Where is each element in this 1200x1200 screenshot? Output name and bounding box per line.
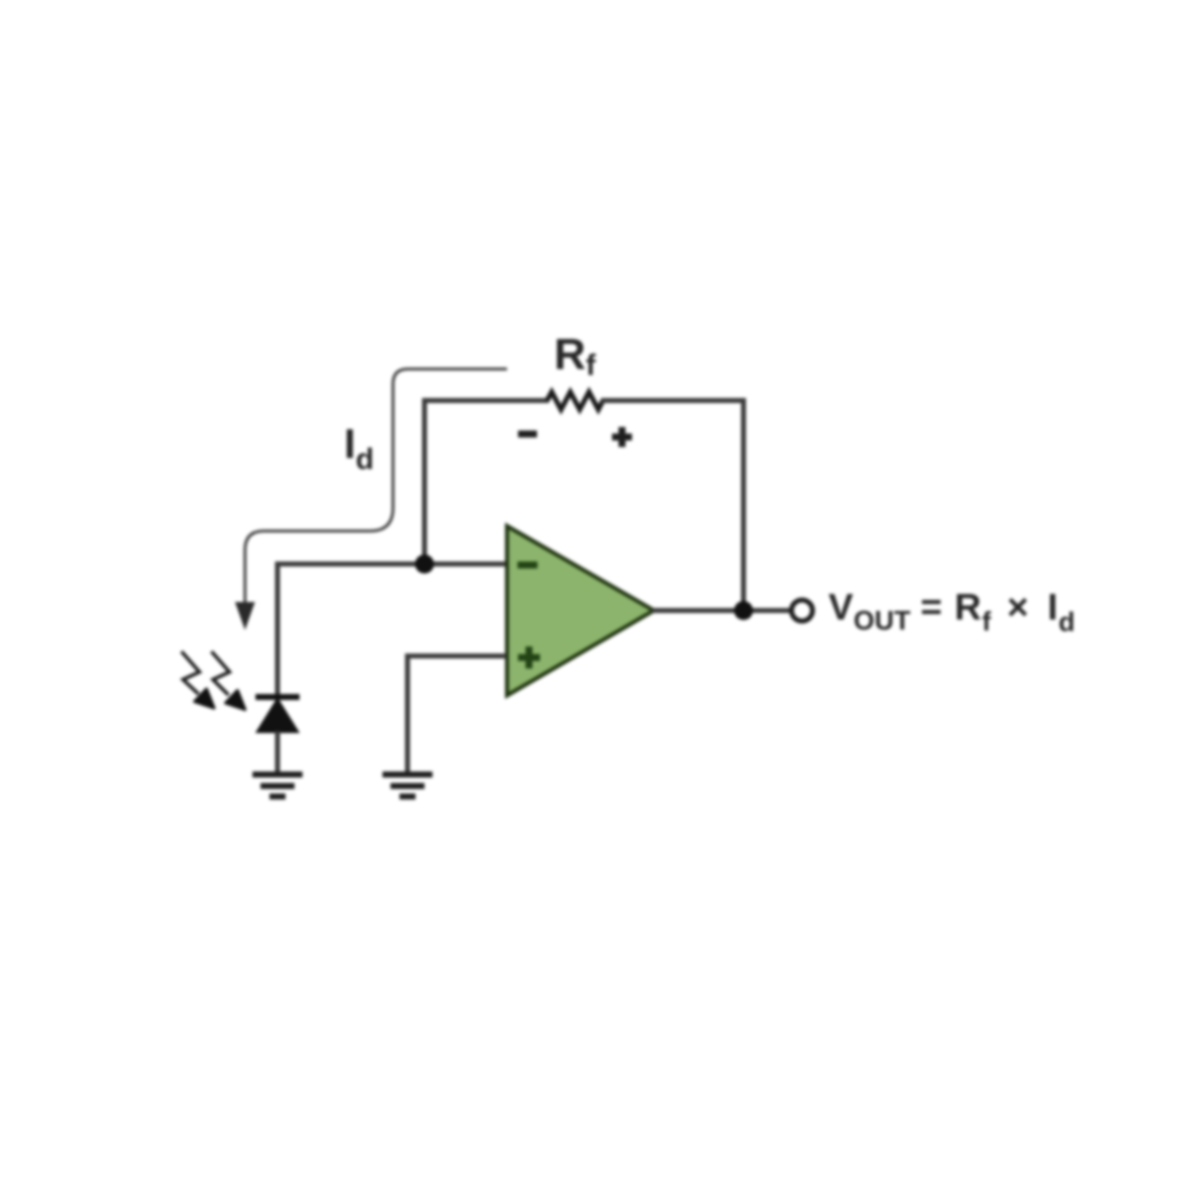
node junction dot at inverting input [415, 555, 434, 574]
label plus at resistor right [612, 427, 632, 447]
svg-text:d: d [1059, 607, 1076, 637]
wire inverting input horizontal [278, 562, 506, 567]
op-amp U1 triangle [507, 526, 654, 696]
photodiode D1 triangle [257, 699, 298, 732]
wire feedback top horizontal right of resistor [601, 398, 744, 403]
resistor Rf zigzag [547, 392, 603, 410]
current path Id thin curve [245, 369, 507, 604]
svg-text:R: R [955, 587, 982, 628]
wire photodiode vertical upper [275, 562, 280, 698]
light arrow 1 [182, 652, 200, 695]
svg-text:×: × [1007, 587, 1029, 628]
svg-text:V: V [829, 587, 854, 628]
current path arrowhead [235, 602, 255, 630]
wire feedback loop left vertical [422, 401, 427, 565]
node junction dot at output [734, 601, 753, 620]
wire photodiode vertical lower [275, 731, 280, 774]
ground under photodiode [253, 772, 303, 800]
label minus at resistor left [518, 431, 537, 438]
svg-text:Id: Id [344, 420, 374, 476]
wire output horizontal [652, 608, 791, 613]
svg-text:OUT: OUT [854, 606, 912, 636]
op-amp plus input mark [518, 647, 540, 669]
light arrow 2 [212, 652, 230, 696]
wire feedback top horizontal left of resistor [422, 398, 549, 403]
op-amp minus input mark [518, 562, 538, 569]
svg-text:Rf: Rf [554, 330, 597, 382]
wire feedback right vertical [741, 398, 746, 611]
ground at non-inverting input [383, 772, 433, 800]
output terminal circle [792, 600, 813, 621]
wire non-inverting input horizontal [408, 654, 507, 659]
svg-text:f: f [982, 607, 992, 637]
svg-text:I: I [1048, 587, 1058, 628]
wire non-inverting ground vertical [405, 654, 410, 775]
svg-text:=: = [921, 587, 943, 628]
photodiode D1 cathode bar [256, 694, 300, 700]
